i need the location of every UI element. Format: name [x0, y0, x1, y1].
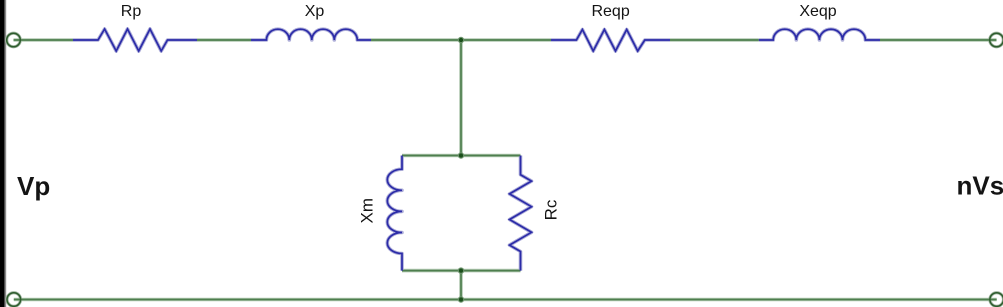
svg-text:Reqp: Reqp: [591, 3, 629, 20]
svg-text:nVs: nVs: [957, 171, 1003, 201]
svg-text:Xeqp: Xeqp: [799, 3, 836, 20]
svg-text:Vp: Vp: [17, 171, 50, 201]
svg-text:Xm: Xm: [358, 198, 377, 224]
svg-text:Rc: Rc: [542, 199, 561, 220]
svg-text:Xp: Xp: [305, 3, 325, 20]
svg-text:Rp: Rp: [121, 3, 142, 20]
